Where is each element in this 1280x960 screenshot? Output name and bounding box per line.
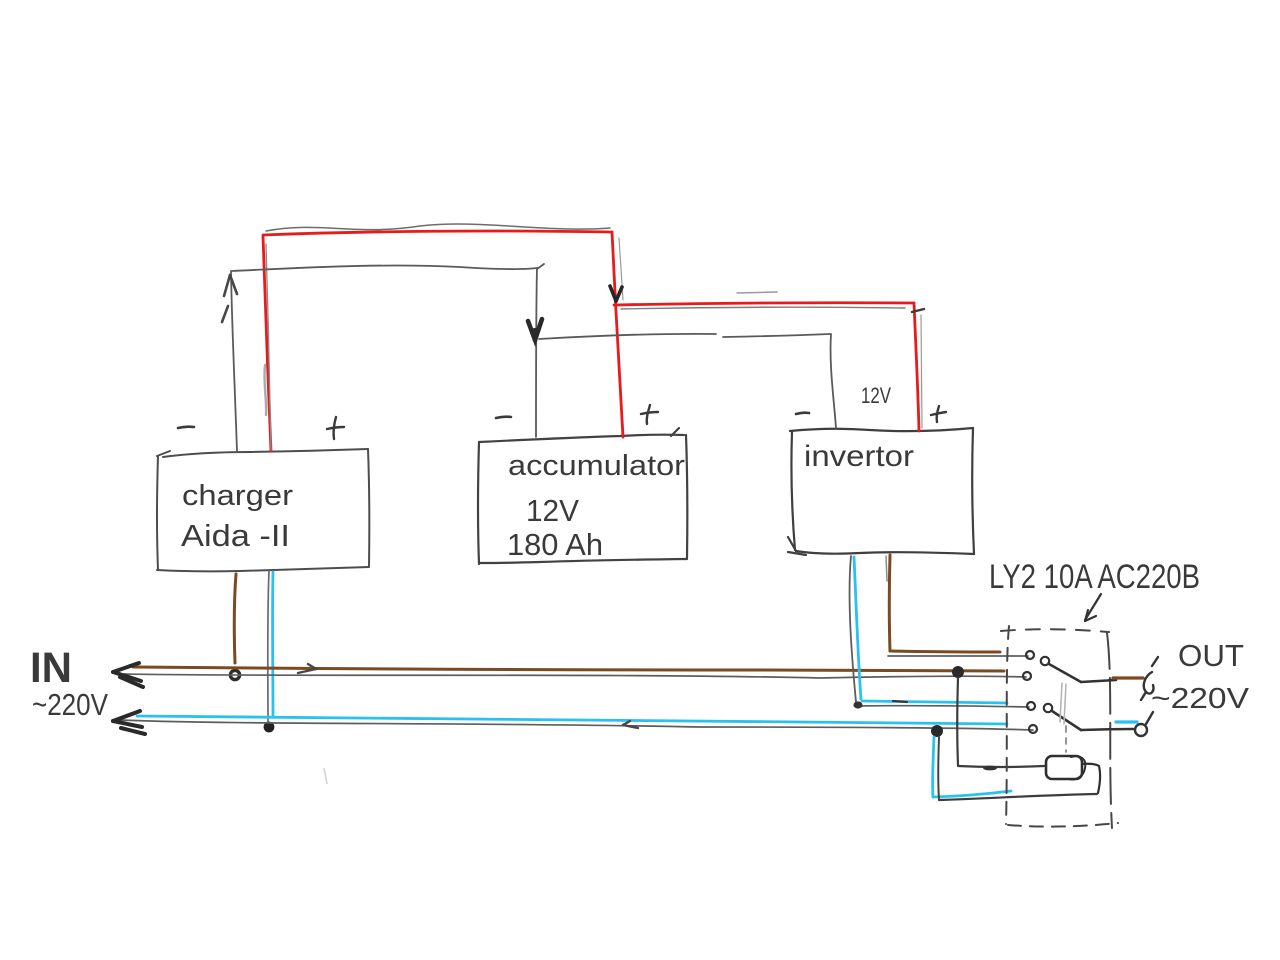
- arrowhead IN line bus left end: [113, 663, 143, 687]
- small arrow tick on neutral bus: [623, 721, 638, 728]
- arrowhead up on charger minus wire: [222, 275, 237, 322]
- wire brown charger AC line down to IN bus: [234, 574, 236, 663]
- invertor U2 box: [788, 428, 974, 555]
- faint pencil mark lower left: [324, 768, 327, 784]
- relay switch 2 pivot: [1044, 704, 1052, 712]
- wire black line bus down to relay coil left: [957, 678, 1044, 770]
- relay K1 dashed box: [1001, 626, 1118, 828]
- relay pin 3 terminal: [1027, 702, 1035, 710]
- charger minus terminal label: [178, 427, 194, 428]
- accumulator plus terminal label: [641, 405, 658, 424]
- OUT neutral terminal circle: [1135, 712, 1153, 736]
- arrow from label down to relay box: [1085, 594, 1101, 621]
- svg-text:invertor: invertor: [804, 440, 914, 473]
- arrowhead down at accumulator minus junction: [528, 319, 542, 342]
- charger plus terminal label: [327, 417, 344, 439]
- svg-text:~220V: ~220V: [32, 687, 108, 722]
- relay coil K1: [1046, 756, 1100, 793]
- relay pin 1 terminal: [1026, 651, 1034, 659]
- OUT 220V label: [1151, 683, 1250, 715]
- accumulator B1 label: [507, 450, 685, 562]
- relay switch 2 arm: [1052, 711, 1133, 730]
- OUT label: [1178, 638, 1244, 673]
- svg-text:IN: IN: [30, 644, 72, 692]
- relay mechanical link dashed: [1060, 683, 1066, 752]
- accumulator minus terminal label: [496, 417, 511, 418]
- invertor U2 label: [804, 440, 914, 473]
- charger U1 box: [157, 449, 369, 571]
- wire brown invertor line out to relay pin 1: [886, 555, 1028, 656]
- invertor minus terminal label: [796, 413, 809, 414]
- wire red charger+ to accumulator+: [263, 224, 623, 451]
- relay switch 1 pivot: [1041, 657, 1049, 665]
- relay K1 label LY2 10A AC220B: [989, 558, 1200, 596]
- OUT line terminal plug: [1141, 657, 1158, 700]
- wire black accumulator- to invertor-: [539, 334, 836, 428]
- svg-text:OUT: OUT: [1178, 638, 1244, 673]
- wire cyan charger AC neutral down to neutral bus: [268, 571, 273, 723]
- pencil smudge near charger plus wire: [264, 365, 266, 415]
- svg-text:Aida -II: Aida -II: [181, 518, 290, 553]
- invertor plus terminal label: [931, 406, 946, 422]
- IN label: [30, 644, 72, 692]
- relay pin 4 terminal: [1029, 725, 1037, 733]
- IN neutral bus cyan: [121, 716, 1033, 730]
- relay switch 1 arm: [1049, 664, 1116, 682]
- junction dot charger neutral on bus: [264, 722, 275, 733]
- svg-text:accumulator: accumulator: [508, 450, 685, 482]
- wire cyan switch 2 to OUT neutral terminal: [1116, 720, 1137, 723]
- charger U1 label: [181, 480, 293, 553]
- svg-text:LY2 10A AC220B: LY2 10A AC220B: [989, 558, 1200, 596]
- svg-text:12V: 12V: [526, 493, 579, 528]
- invertor 12V label: [861, 383, 891, 408]
- open circle junction charger line on bus: [230, 670, 239, 679]
- wire cyan invertor neutral out to relay pin 3: [850, 556, 1029, 709]
- wire brown switch 1 to OUT line terminal: [1113, 676, 1143, 679]
- junction dot line bus to relay coil: [952, 666, 964, 678]
- svg-text:charger: charger: [182, 480, 293, 512]
- IN 220V label: [32, 687, 108, 722]
- svg-text:~220V: ~220V: [1151, 683, 1250, 715]
- svg-text:180 Ah: 180 Ah: [507, 527, 603, 562]
- wire cyan neutral bus down to relay coil right: [933, 737, 1097, 800]
- junction dot neutral bus to relay coil: [931, 725, 943, 737]
- wire red accumulator+ to invertor+: [614, 292, 924, 431]
- relay pin 2 terminal: [1023, 672, 1031, 680]
- wire black charger- to accumulator-: [231, 147, 544, 452]
- IN line bus brown: [124, 667, 1026, 678]
- arrowhead IN neutral bus left end: [113, 711, 145, 734]
- arrowhead on red wire at accumulator+ branch: [610, 286, 622, 301]
- accumulator B1 box: [478, 428, 687, 564]
- small arrow tick on line bus: [298, 664, 316, 673]
- svg-text:12V: 12V: [861, 383, 891, 408]
